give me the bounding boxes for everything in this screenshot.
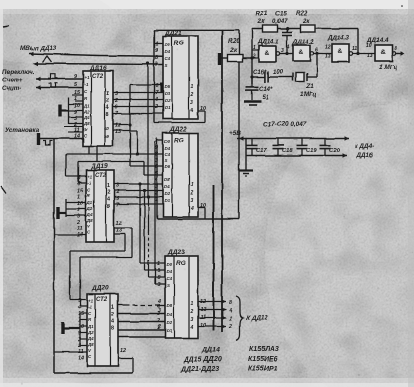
svg-text:Д1: Д1: [83, 103, 90, 108]
svg-text:≤0: ≤0: [104, 126, 109, 131]
svg-text:ДД15 ДД20: ДД15 ДД20: [183, 357, 222, 364]
svg-text:2к: 2к: [229, 47, 237, 54]
svg-text:RG: RG: [176, 260, 186, 267]
svg-text:4: 4: [228, 308, 232, 314]
svg-text:МВып ДД13: МВып ДД13: [20, 45, 57, 52]
svg-text:К155ЛА3: К155ЛА3: [249, 346, 279, 353]
svg-text:1: 1: [191, 84, 194, 90]
svg-text:15: 15: [78, 311, 85, 317]
svg-text:51: 51: [262, 95, 269, 101]
svg-text:+5В: +5В: [229, 130, 241, 137]
svg-text:4: 4: [190, 325, 194, 331]
svg-text:1: 1: [157, 261, 160, 267]
svg-text:СТ2: СТ2: [92, 74, 104, 80]
svg-text:ДД14: ДД14: [201, 347, 220, 354]
svg-text:С15: С15: [275, 11, 287, 18]
svg-text:D1: D1: [165, 105, 171, 110]
svg-text:Z1: Z1: [305, 83, 314, 90]
svg-text:Установка: Установка: [5, 127, 40, 134]
svg-text:100: 100: [273, 70, 284, 76]
svg-text:12: 12: [116, 221, 122, 227]
svg-text:1: 1: [155, 41, 158, 47]
svg-text:D4: D4: [165, 146, 171, 151]
svg-text:4: 4: [107, 197, 110, 203]
svg-text:к ДД4-: к ДД4-: [355, 143, 374, 150]
svg-text:2к: 2к: [257, 19, 265, 25]
svg-text:S: S: [165, 63, 168, 68]
svg-text:ДД16: ДД16: [89, 65, 107, 72]
svg-text:&: &: [299, 49, 304, 56]
svg-text:2к: 2к: [302, 19, 310, 25]
svg-text:D4: D4: [165, 49, 171, 54]
svg-text:4: 4: [157, 299, 161, 305]
svg-text:1: 1: [107, 183, 110, 189]
svg-text:C4: C4: [165, 56, 171, 61]
svg-text:0,047: 0,047: [272, 19, 288, 25]
svg-text:3: 3: [191, 198, 194, 204]
svg-text:10: 10: [366, 43, 372, 49]
svg-text:9: 9: [74, 74, 77, 80]
svg-text:ДД19: ДД19: [90, 163, 108, 170]
svg-text:RG: RG: [174, 137, 184, 144]
svg-text:Д2: Д2: [87, 330, 94, 335]
svg-text:ДД20: ДД20: [91, 285, 109, 292]
svg-text:3: 3: [158, 308, 161, 314]
svg-text:13: 13: [325, 54, 331, 60]
svg-text:&: &: [265, 50, 270, 57]
svg-text:2: 2: [106, 98, 109, 104]
svg-text:12: 12: [120, 348, 126, 354]
svg-text:-1: -1: [88, 304, 92, 309]
svg-text:С20: С20: [329, 148, 340, 154]
svg-text:3: 3: [281, 48, 284, 54]
svg-text:К155ИЕ6: К155ИЕ6: [248, 356, 278, 363]
svg-text:D0: D0: [165, 139, 171, 144]
svg-text:D2: D2: [167, 320, 173, 325]
svg-text:ДД23: ДД23: [167, 249, 185, 256]
svg-text:С14*: С14*: [259, 87, 273, 93]
svg-text:2: 2: [157, 324, 161, 330]
svg-text:2: 2: [190, 190, 194, 196]
svg-text:Д8: Д8: [86, 218, 93, 223]
svg-text:11: 11: [77, 226, 83, 232]
svg-text:ДД14.2: ДД14.2: [292, 39, 315, 46]
svg-text:3: 3: [155, 62, 158, 68]
svg-text:4: 4: [190, 108, 194, 114]
svg-text:D1: D1: [165, 198, 171, 203]
svg-text:ДД14.1: ДД14.1: [257, 39, 280, 46]
svg-text:4: 4: [106, 105, 109, 111]
svg-text:D5: D5: [165, 84, 171, 89]
svg-text:D4: D4: [167, 269, 173, 274]
svg-text:D8: D8: [165, 177, 171, 182]
svg-text:2: 2: [190, 309, 194, 315]
svg-text:С19: С19: [306, 148, 317, 154]
svg-text:Д8: Д8: [87, 342, 94, 347]
svg-text:8: 8: [157, 275, 160, 281]
svg-text:Д4: Д4: [83, 115, 90, 120]
svg-text:&: &: [381, 49, 386, 56]
svg-text:1МГц: 1МГц: [300, 91, 316, 98]
svg-text:К ДД12: К ДД12: [246, 315, 268, 322]
svg-text:ДД21: ДД21: [164, 30, 182, 37]
svg-text:4: 4: [111, 319, 114, 325]
svg-text:D3: D3: [165, 91, 171, 96]
svg-text:C4: C4: [167, 276, 173, 281]
svg-text:Д2: Д2: [86, 206, 93, 211]
svg-text:R21: R21: [256, 11, 268, 18]
svg-text:1: 1: [229, 316, 232, 322]
svg-text:14: 14: [78, 356, 84, 362]
svg-text:+1: +1: [88, 298, 94, 303]
svg-text:C4: C4: [165, 152, 171, 157]
svg-text:+1: +1: [87, 174, 93, 179]
svg-text:Счит-: Счит-: [2, 86, 21, 93]
svg-text:15: 15: [77, 188, 84, 194]
svg-text:К155ИР1: К155ИР1: [248, 366, 278, 373]
svg-text:8: 8: [106, 112, 109, 118]
svg-text:8: 8: [229, 300, 232, 306]
svg-text:С17: С17: [256, 148, 267, 154]
svg-text:D8: D8: [167, 303, 173, 308]
svg-text:9: 9: [157, 268, 160, 274]
svg-text:12: 12: [325, 45, 331, 51]
svg-text:Д2: Д2: [83, 109, 90, 114]
svg-text:ДД14.3: ДД14.3: [327, 35, 350, 42]
svg-text:1: 1: [77, 195, 80, 201]
svg-text:Д1: Д1: [87, 324, 94, 329]
svg-text:ДД22: ДД22: [169, 126, 187, 133]
svg-text:D1: D1: [167, 328, 173, 333]
svg-text:1 МГц: 1 МГц: [379, 64, 397, 71]
svg-text:СТ2: СТ2: [95, 173, 107, 179]
svg-text:ДД21-ДД23: ДД21-ДД23: [180, 366, 219, 373]
svg-text:Д1: Д1: [86, 200, 93, 205]
svg-text:Переключ.: Переключ.: [2, 69, 35, 76]
svg-text:D4: D4: [165, 184, 171, 189]
svg-text:Д8: Д8: [83, 121, 90, 126]
svg-text:1: 1: [74, 96, 77, 102]
svg-text:1: 1: [106, 91, 109, 97]
svg-text:-1: -1: [84, 82, 88, 87]
svg-text:2: 2: [111, 312, 114, 318]
svg-text:4: 4: [77, 305, 81, 311]
svg-text:4: 4: [286, 45, 290, 51]
svg-text:D4: D4: [167, 312, 173, 317]
svg-text:R20: R20: [228, 38, 240, 45]
svg-text:8: 8: [111, 326, 114, 332]
svg-text:4: 4: [76, 181, 80, 187]
svg-text:S: S: [165, 158, 168, 163]
svg-text:2: 2: [107, 190, 110, 196]
svg-text:&: &: [338, 48, 343, 55]
svg-text:D0: D0: [167, 262, 173, 267]
svg-text:D2: D2: [165, 191, 171, 196]
svg-text:8: 8: [107, 204, 110, 210]
svg-text:+1: +1: [84, 75, 90, 80]
svg-text:D6: D6: [165, 164, 171, 169]
svg-text:8: 8: [394, 46, 397, 52]
svg-text:9: 9: [155, 48, 158, 54]
svg-text:1: 1: [253, 45, 256, 51]
svg-text:3: 3: [157, 282, 160, 288]
svg-text:С18: С18: [282, 148, 293, 154]
svg-text:Д4: Д4: [87, 336, 94, 341]
svg-text:RG: RG: [174, 40, 184, 47]
svg-text:2: 2: [190, 92, 194, 98]
svg-text:13: 13: [367, 53, 373, 59]
svg-text:СТ2: СТ2: [96, 297, 108, 303]
svg-text:≥9: ≥9: [104, 134, 109, 139]
svg-text:2: 2: [228, 324, 232, 330]
svg-text:4: 4: [190, 206, 194, 212]
svg-text:R22: R22: [296, 11, 308, 18]
svg-text:11: 11: [352, 46, 357, 52]
svg-text:Д4: Д4: [86, 212, 93, 217]
svg-text:1: 1: [111, 305, 114, 311]
svg-text:14: 14: [74, 134, 80, 140]
svg-text:1: 1: [191, 301, 194, 307]
svg-text:D0: D0: [165, 42, 171, 47]
svg-text:-1: -1: [87, 180, 91, 185]
svg-text:10: 10: [74, 103, 80, 109]
svg-text:С16*: С16*: [253, 70, 267, 76]
svg-text:С17-С20 0,047: С17-С20 0,047: [263, 121, 307, 128]
svg-text:ДД16: ДД16: [356, 152, 373, 159]
svg-text:9: 9: [74, 110, 77, 116]
svg-text:Счет+: Счет+: [2, 77, 23, 84]
svg-text:S: S: [167, 283, 170, 288]
svg-text:1: 1: [191, 182, 194, 188]
svg-text:3: 3: [191, 100, 194, 106]
svg-text:8: 8: [155, 55, 158, 61]
